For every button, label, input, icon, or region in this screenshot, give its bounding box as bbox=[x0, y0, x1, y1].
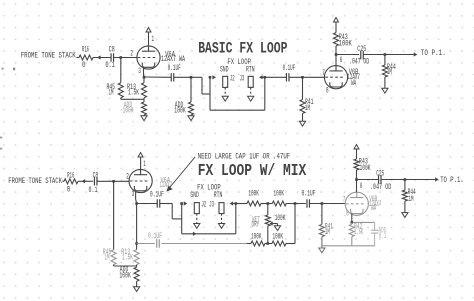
ground under ADD 100K (top) bbox=[141, 116, 147, 121]
ground under J3 (top) bbox=[248, 96, 254, 101]
svg-text:2: 2 bbox=[130, 49, 133, 58]
resistor R45 1M (bottom) bbox=[103, 248, 116, 265]
svg-text:0.1: 0.1 bbox=[89, 186, 98, 195]
svg-text:100K: 100K bbox=[339, 40, 352, 49]
svg-text:.047 OD: .047 OD bbox=[370, 183, 392, 192]
svg-text:100K: 100K bbox=[273, 233, 284, 242]
arrow into J3 tip (bottom) bbox=[230, 201, 234, 205]
wire junction down to R45 (bottom) bbox=[113, 181, 115, 249]
node return junction (top) bbox=[264, 76, 267, 79]
wire C25 to output (top) bbox=[363, 54, 413, 56]
wire R45 bottom connector (top) bbox=[121, 98, 144, 100]
power arrow above R43 (top) bbox=[334, 18, 339, 33]
wire C25 to output (bottom) bbox=[381, 179, 435, 181]
svg-text:TO P.1.: TO P.1. bbox=[421, 49, 446, 58]
svg-text:0.1UF: 0.1UF bbox=[148, 232, 162, 241]
svg-text:0: 0 bbox=[67, 185, 71, 194]
svg-text:C25: C25 bbox=[357, 45, 366, 54]
jack J3 RTN (bottom) bbox=[209, 201, 224, 214]
wire mix node down to dry (bottom) bbox=[294, 204, 296, 244]
node send junction (bottom) bbox=[180, 202, 183, 205]
jack J2 SND (top) bbox=[223, 74, 235, 87]
power arrow above V6A plate (top) bbox=[146, 28, 151, 46]
artifact dots left edge bbox=[0, 68, 15, 150]
svg-text:1M: 1M bbox=[325, 228, 330, 237]
jack J3 sleeve lead (top) bbox=[250, 87, 252, 96]
svg-text:7: 7 bbox=[322, 69, 325, 78]
wire return junction (bottom) bbox=[233, 203, 247, 205]
svg-text:FROME TONE STACK: FROME TONE STACK bbox=[8, 177, 62, 186]
svg-text:1M: 1M bbox=[109, 89, 114, 98]
wire send vertical to rail (bottom) bbox=[181, 204, 183, 234]
wire bypass rail (top) bbox=[210, 109, 265, 111]
wire C8 to V6A grid (bottom) bbox=[97, 180, 129, 182]
svg-text:100K: 100K bbox=[275, 214, 286, 223]
resistor R41 1M (top) bbox=[300, 77, 314, 121]
svg-text:6: 6 bbox=[340, 56, 343, 65]
tube V6B (top) bbox=[322, 56, 360, 95]
resistor ADD 100K under R13 (top) bbox=[123, 98, 147, 116]
capacitor 0.1UF wet coupling (bottom) bbox=[302, 190, 316, 208]
svg-text:SND: SND bbox=[220, 65, 229, 74]
capacitor 0.1UF send coupling (top) bbox=[168, 64, 181, 82]
label SND (top) bbox=[220, 65, 229, 74]
svg-text:1.5K: 1.5K bbox=[128, 89, 139, 98]
wire to V6B grid (bottom) bbox=[310, 203, 346, 205]
net label FROM TONE STACK (bottom) bbox=[8, 177, 62, 186]
svg-text:NEED LARGE CAP 1UF OR .47UF: NEED LARGE CAP 1UF OR .47UF bbox=[198, 153, 291, 162]
ground at pot wiper (bottom) bbox=[274, 226, 280, 231]
resistor R16 (bottom) bbox=[64, 172, 78, 195]
annotation NEED LARGE CAP bbox=[166, 153, 290, 192]
svg-text:0.1: 0.1 bbox=[105, 61, 115, 70]
wire V6B cathode (bottom) bbox=[352, 214, 375, 223]
svg-text:3: 3 bbox=[132, 190, 135, 199]
wire cathode down to dry tap (bottom) bbox=[136, 204, 138, 250]
wire with input arrow (top) bbox=[93, 55, 111, 59]
svg-text:R16: R16 bbox=[82, 46, 89, 55]
node cathode junction (bottom right) bbox=[351, 221, 354, 224]
node cathode junction (top) bbox=[143, 76, 146, 79]
node plate junction (bottom) bbox=[355, 178, 358, 181]
label SND (bottom) bbox=[190, 191, 199, 200]
tube V6A (top) bbox=[130, 35, 185, 76]
capacitor C25 .047 OD (bottom) bbox=[370, 169, 392, 192]
label RTN (bottom) bbox=[214, 191, 223, 200]
capacitor ADD 0.1 bypass (bottom) bbox=[371, 222, 386, 245]
title BASIC FX LOOP bbox=[198, 40, 287, 58]
svg-text:1M: 1M bbox=[105, 254, 110, 263]
svg-text:12AX7 WA: 12AX7 WA bbox=[161, 55, 185, 64]
ground under J3 (bottom) bbox=[218, 224, 224, 229]
node R41 junction (top) bbox=[301, 76, 304, 79]
wire return vertical to rail (top) bbox=[264, 77, 266, 110]
svg-text:WA: WA bbox=[351, 79, 356, 88]
svg-text:0.1UF: 0.1UF bbox=[302, 190, 316, 199]
resistor R43 100K (bottom) bbox=[354, 158, 371, 173]
net label FROM TONE STACK (top) bbox=[21, 52, 76, 61]
capacitor 0.1UF return coupling (top) bbox=[283, 64, 296, 82]
wire to V6B grid (top) bbox=[289, 76, 325, 78]
node send junction (top) bbox=[209, 76, 212, 79]
power arrow above R43 (bottom) bbox=[354, 145, 359, 160]
tube V6B (bottom) bbox=[343, 182, 382, 219]
wire plate to C25 (bottom) bbox=[357, 179, 379, 181]
node cathode junction (bottom) bbox=[135, 202, 138, 205]
node return junction (bottom) bbox=[235, 202, 238, 205]
svg-text:C25: C25 bbox=[376, 169, 384, 178]
svg-text:FROME TONE STACK: FROME TONE STACK bbox=[21, 52, 76, 61]
arrow into J3 tip (top) bbox=[259, 75, 263, 79]
output arrow TO P.1. (top) bbox=[414, 49, 446, 58]
wire (top input) bbox=[77, 57, 80, 59]
wire between wet resistors (bottom) bbox=[261, 203, 272, 205]
svg-text:100K: 100K bbox=[248, 190, 259, 199]
svg-text:8: 8 bbox=[326, 86, 329, 95]
svg-text:DRY: DRY bbox=[252, 220, 260, 229]
capacitor C25 .047 OD (top) bbox=[349, 45, 369, 66]
wire send vertical to rail (top) bbox=[209, 77, 211, 110]
svg-text:0.1UF: 0.1UF bbox=[283, 64, 296, 73]
resistor R16 (top) bbox=[79, 46, 93, 71]
svg-text:BASIC FX LOOP: BASIC FX LOOP bbox=[198, 40, 287, 58]
svg-text:2: 2 bbox=[126, 172, 129, 181]
resistor R44 1M (top) bbox=[382, 55, 396, 89]
svg-text:SND: SND bbox=[190, 191, 199, 200]
wire cathode ground rail (bottom) bbox=[322, 245, 375, 247]
wire jog at send (bottom) bbox=[172, 204, 182, 219]
wire wet to mix node (bottom) bbox=[286, 203, 306, 205]
svg-text:RTN: RTN bbox=[246, 65, 255, 74]
svg-text:J2: J2 bbox=[201, 201, 206, 210]
resistor R43 100K (top) bbox=[334, 33, 352, 49]
ground under ADD 100K (bottom) bbox=[134, 287, 140, 292]
svg-text:1M: 1M bbox=[305, 104, 310, 113]
resistor R13 1.5K (top) bbox=[127, 77, 147, 98]
label FX LOOP (bottom) bbox=[197, 183, 221, 192]
resistor ADD 100K under R13 (bottom) bbox=[119, 265, 139, 287]
capacitor 0.1UF dry coupling (bottom) bbox=[148, 232, 162, 248]
resistor R44 1M (bottom) bbox=[402, 180, 415, 213]
wire junction down to R45 (top) bbox=[120, 58, 122, 83]
svg-text:J2: J2 bbox=[230, 74, 235, 83]
wire bypass rail with arrow (bottom) bbox=[182, 232, 236, 236]
jack J3 sleeve lead (bottom) bbox=[221, 214, 223, 224]
node R44 junction (top) bbox=[384, 53, 387, 56]
wire jog at send (top) bbox=[202, 77, 210, 94]
svg-text:0.1UF: 0.1UF bbox=[150, 191, 164, 200]
svg-text:1.5K: 1.5K bbox=[354, 228, 363, 237]
svg-text:.047 OD: .047 OD bbox=[349, 57, 369, 66]
svg-text:0.1UF: 0.1UF bbox=[168, 64, 181, 73]
node C8/R45 junction (bottom) bbox=[112, 180, 115, 183]
tube V6A (bottom) bbox=[126, 160, 172, 199]
label RTN (top) bbox=[246, 65, 255, 74]
svg-text:100K: 100K bbox=[123, 106, 134, 115]
svg-text:8: 8 bbox=[346, 210, 349, 219]
svg-text:FX LOOP W/ MIX: FX LOOP W/ MIX bbox=[198, 162, 307, 181]
svg-text:R16: R16 bbox=[67, 172, 74, 181]
resistor R13 1.5K (bottom) bbox=[121, 248, 139, 265]
svg-text:3: 3 bbox=[138, 67, 141, 76]
ground under R44 (top) bbox=[382, 88, 388, 93]
svg-text:WA: WA bbox=[371, 204, 376, 213]
ground under R44 (bottom) bbox=[402, 213, 408, 218]
wire C8 to V6A grid (top) bbox=[114, 57, 137, 59]
wire plate to C25 (top) bbox=[336, 54, 359, 56]
wire return junction (top) bbox=[262, 76, 286, 78]
title FX LOOP W/ MIX bbox=[198, 162, 307, 181]
svg-text:1: 1 bbox=[143, 160, 146, 169]
wire R43 to plate (top) bbox=[335, 46, 337, 66]
svg-text:1M: 1M bbox=[387, 68, 392, 77]
svg-text:C8: C8 bbox=[93, 172, 99, 181]
svg-text:J3: J3 bbox=[209, 201, 214, 210]
resistor 100K dry series 1 (bottom) bbox=[251, 233, 265, 246]
potentiometer WET/DRY 100K (bottom) bbox=[252, 204, 286, 244]
node C8/R45 junction (top) bbox=[120, 56, 123, 59]
wire (bottom input) bbox=[63, 180, 65, 182]
node pot top junction (bottom) bbox=[267, 202, 270, 205]
dry path wire (bottom) bbox=[137, 243, 295, 245]
wire V6A cathode (top) bbox=[144, 68, 203, 78]
node plate junction (top) bbox=[335, 53, 338, 56]
ground under R41 (bottom) bbox=[319, 248, 325, 253]
svg-text:100K: 100K bbox=[360, 164, 371, 173]
resistor R42 1.5K (bottom) bbox=[349, 222, 363, 245]
svg-text:100K: 100K bbox=[119, 271, 131, 280]
jack J3 RTN (top) bbox=[240, 74, 254, 87]
svg-text:TO P.1.: TO P.1. bbox=[440, 176, 464, 185]
capacitor 0.1UF send coupling (bottom) bbox=[150, 191, 164, 208]
svg-text:1.5K: 1.5K bbox=[122, 254, 133, 263]
wire R43 to plate (bottom) bbox=[356, 170, 358, 192]
wire with input arrow (bottom) bbox=[78, 179, 93, 183]
jack J2 sleeve lead (top) bbox=[224, 87, 226, 96]
resistor R45 1M (top) bbox=[107, 83, 124, 98]
svg-text:1: 1 bbox=[152, 35, 155, 44]
jack J2 SND (bottom) bbox=[194, 201, 206, 214]
capacitor C8 (bottom) bbox=[89, 172, 99, 195]
svg-text:1M: 1M bbox=[409, 195, 414, 204]
jack J2 sleeve lead (bottom) bbox=[196, 214, 198, 224]
node mix junction (bottom) bbox=[294, 202, 297, 205]
node ADD resistor junction (top) bbox=[190, 76, 193, 79]
svg-text:RTN: RTN bbox=[214, 191, 223, 200]
pot wiper arrow (bottom) bbox=[270, 221, 278, 225]
wire V6A cathode (bottom) bbox=[136, 191, 173, 204]
svg-text:0: 0 bbox=[82, 61, 86, 70]
resistor ADD 100K shunt (top) bbox=[174, 77, 193, 116]
output arrow TO P.1. (bottom) bbox=[435, 176, 464, 185]
resistor 100K wet series 2 (bottom) bbox=[272, 190, 286, 206]
ground under J2 (top) bbox=[222, 96, 228, 101]
label FX LOOP (top) bbox=[227, 58, 251, 67]
resistor 100K dry series 2 (bottom) bbox=[272, 233, 286, 246]
node R41 junction (bottom) bbox=[321, 202, 324, 205]
arrow into J2 tip (bottom) bbox=[184, 201, 188, 205]
node pot bottom junction (bottom) bbox=[267, 242, 270, 245]
wire R45 bottom connector (bottom) bbox=[114, 265, 137, 266]
svg-text:J3: J3 bbox=[240, 74, 245, 83]
capacitor C8 (top) bbox=[105, 46, 115, 70]
power arrow above V6A plate (bottom) bbox=[138, 153, 143, 170]
resistor 100K wet series 1 (bottom) bbox=[247, 190, 261, 206]
svg-text:7: 7 bbox=[343, 196, 346, 205]
ground under J2 (bottom) bbox=[194, 224, 200, 229]
wire return vertical to rail (bottom) bbox=[235, 204, 237, 234]
svg-text:6: 6 bbox=[360, 182, 363, 191]
node R44 junction (bottom) bbox=[404, 178, 407, 181]
ground under ADD shunt (top) bbox=[188, 116, 194, 121]
svg-text:100K: 100K bbox=[251, 233, 262, 242]
resistor R41 1M (bottom) bbox=[319, 204, 333, 249]
svg-text:0.1: 0.1 bbox=[379, 232, 387, 241]
ground under R41 (top) bbox=[299, 121, 305, 126]
svg-text:100K: 100K bbox=[274, 190, 285, 199]
arrow into J2 tip (top) bbox=[212, 75, 216, 79]
svg-text:100K: 100K bbox=[174, 106, 186, 115]
node dry tap junction (bottom) bbox=[135, 242, 138, 245]
svg-text:C8: C8 bbox=[109, 46, 115, 55]
